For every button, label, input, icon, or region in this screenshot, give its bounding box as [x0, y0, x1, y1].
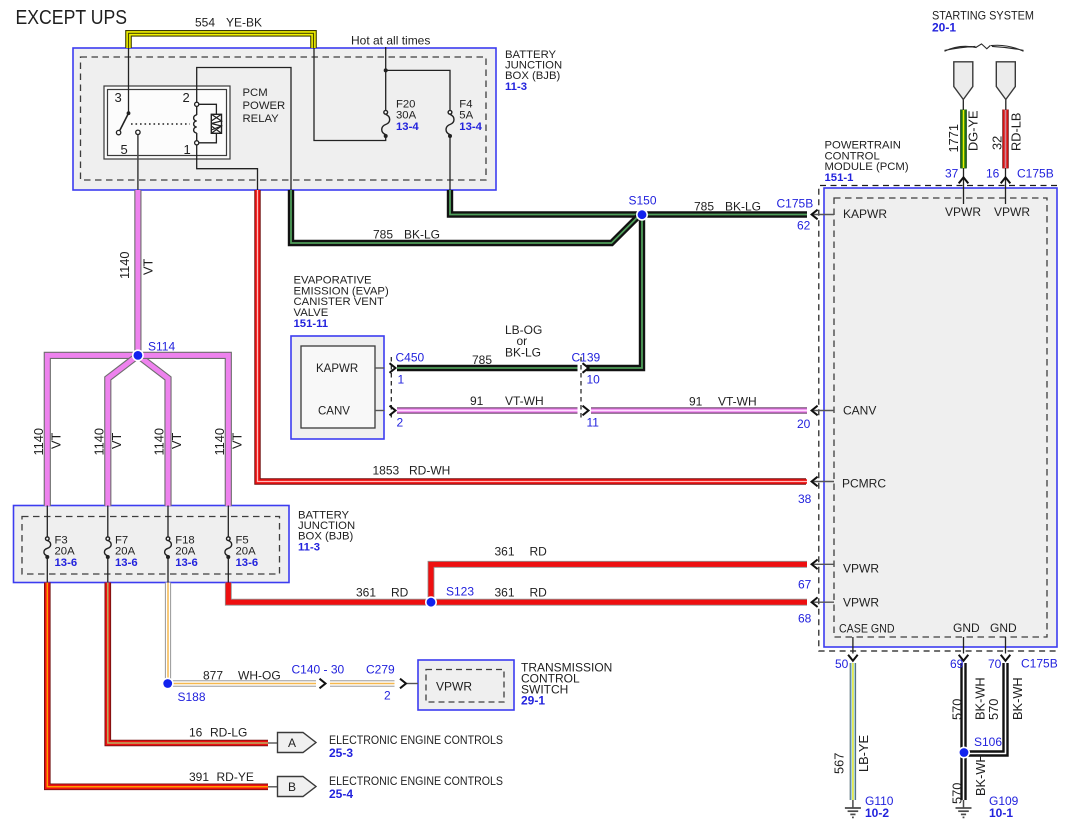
svg-text:VPWR: VPWR	[843, 562, 879, 576]
svg-text:10-1: 10-1	[989, 806, 1013, 820]
svg-text:151-1: 151-1	[825, 172, 854, 184]
svg-text:ELECTRONIC ENGINE CONTROLS: ELECTRONIC ENGINE CONTROLS	[329, 733, 503, 747]
svg-text:S106: S106	[974, 735, 1002, 749]
wire 1853 RD-WH from relay pin1 to PCMRC	[258, 190, 807, 482]
wire: F4 bottom to box edge	[449, 137, 451, 191]
relay switch pivot dot	[127, 111, 131, 115]
svg-text:62: 62	[797, 219, 811, 233]
wire 32 RD-LB starting system	[1002, 110, 1008, 169]
svg-text:CANV: CANV	[843, 404, 876, 418]
thin lead: C279 to switch box	[406, 683, 418, 685]
svg-text:13-6: 13-6	[175, 557, 198, 569]
splice S188	[162, 678, 174, 690]
wire 391 RD-YE from F3 to connector B	[47, 583, 268, 787]
svg-text:391RD-YE: 391RD-YE	[189, 770, 254, 784]
svg-text:DG-YE: DG-YE	[966, 110, 981, 151]
fuse F7	[104, 537, 111, 556]
svg-text:C139: C139	[572, 351, 601, 365]
relay coil-resistor link bottom	[199, 133, 217, 143]
svg-text:1853RD-WH: 1853RD-WH	[373, 464, 451, 478]
wire 361 RD from F5 through S123 to VPWR 68	[228, 583, 807, 603]
wire 1771 DG-YE starting system	[960, 110, 967, 169]
svg-text:S123: S123	[446, 585, 474, 599]
svg-text:VPWR: VPWR	[436, 680, 472, 694]
wire 16 RD-LG from F7 to connector A	[108, 583, 268, 744]
svg-text:C175B: C175B	[1021, 657, 1058, 671]
arrow into VPWR 68	[812, 597, 818, 607]
connector C139 dashed line	[580, 357, 582, 418]
svg-text:1140: 1140	[117, 251, 132, 279]
EVAP valve box	[291, 336, 384, 439]
svg-text:570: 570	[950, 783, 965, 804]
relay box outline	[104, 86, 230, 159]
arrow C450 pin2	[390, 406, 396, 416]
arrow C139 pin11	[583, 406, 589, 416]
thin lead: connector A	[268, 742, 279, 744]
arrow C139 pin10	[583, 363, 589, 373]
arrow out GND 69	[959, 655, 969, 661]
starting connector right	[996, 62, 1015, 100]
svg-text:Hot at all times: Hot at all times	[351, 34, 430, 48]
arrow out CASE GND 50	[848, 655, 858, 661]
svg-text:VPWR: VPWR	[945, 205, 981, 219]
fuse F5	[225, 537, 232, 556]
svg-text:1140: 1140	[212, 428, 227, 456]
svg-text:VT: VT	[49, 432, 64, 449]
relay dotted link	[131, 123, 190, 125]
relay switch contact circle	[116, 130, 120, 134]
svg-text:VT: VT	[169, 432, 184, 449]
C175B connector dashed boundary	[819, 186, 1057, 652]
thin lead: PCM pin tails	[812, 214, 834, 216]
wire 567 LB-YE case ground	[850, 663, 856, 800]
svg-text:VT: VT	[109, 432, 124, 449]
svg-text:LB-YE: LB-YE	[856, 735, 871, 772]
svg-text:BK-WH: BK-WH	[973, 753, 988, 796]
wire: junction to F4 fuse	[386, 70, 450, 111]
svg-text:91VT-WH: 91VT-WH	[689, 395, 757, 409]
thin lead: connector B	[268, 786, 279, 788]
svg-text:11-3: 11-3	[505, 81, 527, 93]
connector A pentagon	[278, 733, 317, 753]
svg-text:50: 50	[835, 657, 849, 671]
svg-text:25-3: 25-3	[329, 746, 353, 760]
relay pin 5 contact circle	[136, 130, 140, 134]
svg-text:554YE-BK: 554YE-BK	[195, 16, 262, 30]
svg-text:PCMRC: PCMRC	[842, 477, 886, 491]
svg-text:BATTERYJUNCTIONBOX (BJB): BATTERYJUNCTIONBOX (BJB)	[298, 510, 355, 543]
wire 1140 VT branch to F18	[138, 355, 168, 506]
arrow into CANV 20	[812, 406, 818, 416]
svg-text:BK-WH: BK-WH	[1010, 677, 1025, 720]
svg-text:GND: GND	[990, 621, 1017, 635]
connector C450 dashed line	[390, 357, 392, 418]
relay coil terminal pin 1	[195, 141, 199, 145]
wire 91 VT-WH from CANV to PCM	[397, 407, 578, 413]
rotated wire labels starting system	[946, 110, 1024, 152]
svg-text:20: 20	[797, 417, 811, 431]
svg-text:1: 1	[184, 142, 191, 157]
svg-text:13-6: 13-6	[55, 557, 78, 569]
arrow into PCMRC 38	[812, 477, 818, 487]
svg-text:13-6: 13-6	[115, 557, 138, 569]
rotated labels grounds	[832, 677, 1026, 804]
arrow out GND 70	[1001, 655, 1011, 661]
svg-text:F2030A: F2030A	[396, 98, 417, 121]
svg-text:91VT-WH: 91VT-WH	[470, 394, 544, 408]
wire 1140 VT branch to F3	[47, 355, 138, 506]
wire 1140 VT branch to F7	[108, 355, 138, 506]
thin lead: ground stems	[852, 800, 854, 808]
PCM box	[824, 188, 1057, 647]
thin lead: PCM top VPWR pins	[963, 168, 965, 204]
svg-text:C450: C450	[396, 351, 425, 365]
BJB2 fuse stems	[47, 506, 228, 583]
svg-text:10-2: 10-2	[865, 806, 889, 820]
wire: relay pin 2 loop to box edge	[197, 68, 291, 191]
svg-text:70: 70	[988, 657, 1002, 671]
svg-text:11-3: 11-3	[298, 541, 320, 553]
svg-text:KAPWR: KAPWR	[843, 207, 887, 221]
svg-text:16RD-LG: 16RD-LG	[189, 726, 247, 740]
arrow into VPWR 67	[812, 560, 818, 570]
wire 877 WH-OG from F18/S188 to C140	[168, 583, 316, 684]
svg-text:C140 - 30: C140 - 30	[292, 663, 345, 677]
svg-text:S150: S150	[629, 194, 657, 208]
relay resistor zigzag	[211, 114, 221, 133]
svg-text:S188: S188	[178, 690, 206, 704]
svg-text:VT: VT	[141, 258, 156, 275]
thin lead: starting connector tips	[962, 100, 964, 111]
wire: junction to F20 fuse	[385, 70, 387, 111]
svg-text:13-4: 13-4	[459, 121, 482, 133]
svg-text:1140: 1140	[31, 428, 46, 456]
wire 785 BK-LG from F4 through S150 to KAPWR	[450, 190, 807, 215]
thin lead: EVAP KAPWR pin	[375, 367, 385, 369]
svg-text:KAPWR: KAPWR	[316, 363, 358, 375]
svg-text:785BK-LG: 785BK-LG	[694, 200, 761, 214]
splice S106	[958, 747, 970, 759]
relay coil arcs	[194, 106, 197, 140]
svg-text:2: 2	[183, 90, 190, 105]
svg-text:37: 37	[945, 167, 959, 181]
svg-text:151-11: 151-11	[294, 318, 329, 330]
wire 1140 VT from relay pin 5 to S114	[134, 190, 141, 352]
wire 554 YE-BK loop	[129, 33, 314, 48]
wire 361 RD from S123 to VPWR 67	[431, 564, 807, 602]
svg-text:A: A	[288, 736, 296, 750]
svg-text:20-1: 20-1	[932, 21, 956, 35]
rotated 1140 VT at pin5 wire	[117, 251, 156, 279]
arrow C450 pin1	[390, 363, 396, 373]
svg-text:EXCEPT UPS: EXCEPT UPS	[16, 7, 128, 29]
wire 1140 VT branch to F5	[138, 355, 228, 506]
svg-text:1: 1	[398, 373, 405, 387]
wire: relay pin 1 loop to box edge	[197, 145, 258, 190]
svg-text:570: 570	[986, 699, 1001, 720]
svg-text:11: 11	[587, 416, 600, 430]
fuse F20	[382, 110, 390, 134]
svg-text:VPWR: VPWR	[843, 596, 879, 610]
svg-text:3: 3	[115, 90, 122, 105]
transmission control switch box	[418, 660, 514, 710]
arrow into VPWR 37	[959, 177, 969, 183]
svg-text:1140: 1140	[152, 428, 167, 456]
svg-text:CANV: CANV	[318, 406, 350, 418]
junction dot hot feed	[384, 68, 388, 72]
wire 570 BK-WH pin 69 to S106	[960, 663, 966, 750]
svg-text:67: 67	[798, 578, 812, 592]
splice S123	[425, 596, 437, 608]
wire: F20 bottom to yellow loop riser	[314, 48, 386, 141]
thin lead: EVAP CANV pin	[375, 410, 385, 412]
fuse F4	[446, 110, 454, 134]
SECTION: boxes	[14, 48, 1058, 710]
svg-text:32: 32	[990, 136, 1005, 150]
svg-text:68: 68	[798, 612, 812, 626]
svg-text:BATTERYJUNCTIONBOX (BJB): BATTERYJUNCTIONBOX (BJB)	[505, 49, 562, 82]
svg-text:C175B: C175B	[1017, 167, 1054, 181]
splice S150	[636, 209, 648, 221]
svg-text:877WH-OG: 877WH-OG	[203, 669, 281, 683]
svg-text:C175B: C175B	[777, 197, 814, 211]
battery junction box BJB top	[73, 48, 496, 190]
wire: relay pin 3 drop	[128, 48, 130, 112]
svg-text:1771: 1771	[946, 124, 961, 152]
ground G110	[845, 808, 861, 817]
rotated 1140 VT labels row	[31, 428, 244, 456]
svg-text:CASE GND: CASE GND	[839, 622, 895, 636]
wire 570 BK-WH S106 to G109	[960, 755, 966, 800]
relay resistor box	[211, 114, 221, 133]
svg-text:ELECTRONIC ENGINE CONTROLS: ELECTRONIC ENGINE CONTROLS	[329, 774, 503, 788]
fuse F3	[44, 537, 51, 556]
svg-text:69: 69	[950, 657, 964, 671]
svg-text:RD-LB: RD-LB	[1009, 113, 1024, 151]
fuse F18	[165, 537, 172, 556]
thin lead: PCM bottom GND pins	[852, 637, 854, 654]
wire 877 WH-OG from C140 to C279	[330, 680, 395, 686]
arrow into KAPWR 62	[812, 210, 818, 220]
svg-text:S114: S114	[148, 340, 175, 354]
svg-text:C279: C279	[366, 663, 395, 677]
svg-text:25-4: 25-4	[329, 787, 353, 801]
ground G109	[956, 808, 972, 817]
svg-text:1140: 1140	[92, 428, 107, 456]
svg-text:16: 16	[986, 167, 1000, 181]
connector B pentagon	[278, 777, 317, 797]
arrow into VPWR 16	[1001, 177, 1011, 183]
relay coil-resistor link top	[199, 104, 217, 114]
starting connector left	[954, 62, 973, 100]
relay coil terminal pin 2	[195, 102, 199, 106]
splice S114	[132, 349, 144, 361]
svg-text:B: B	[288, 780, 296, 794]
svg-text:5: 5	[121, 142, 128, 157]
svg-text:F45A: F45A	[459, 98, 473, 121]
svg-text:13-6: 13-6	[236, 557, 259, 569]
relay switch arm	[119, 113, 128, 131]
svg-text:567: 567	[832, 753, 847, 774]
arrow C279	[400, 679, 406, 689]
svg-text:F1820A: F1820A	[175, 535, 196, 558]
svg-text:2: 2	[384, 689, 391, 703]
brace starting system	[945, 44, 1024, 51]
svg-text:785BK-LG: 785BK-LG	[373, 228, 440, 242]
wire 785 BK-LG from relay pin2 to S150	[291, 190, 640, 243]
arrow C140-30	[320, 679, 326, 689]
svg-text:570: 570	[950, 699, 965, 720]
svg-text:2: 2	[397, 416, 404, 430]
svg-text:10: 10	[587, 373, 601, 387]
wire 570 BK-WH pin 70 to S106	[966, 663, 1006, 754]
svg-text:VPWR: VPWR	[994, 205, 1030, 219]
svg-text:38: 38	[798, 492, 812, 506]
wire: hot at all times feed	[385, 47, 387, 70]
svg-text:GND: GND	[953, 621, 980, 635]
svg-text:VT: VT	[229, 432, 244, 449]
svg-text:785: 785	[472, 353, 492, 367]
wire 785 LB-OG/BK-LG from C450 to S150	[397, 365, 578, 371]
battery junction box BJB lower	[14, 506, 290, 583]
svg-text:13-4: 13-4	[396, 121, 419, 133]
svg-text:29-1: 29-1	[521, 694, 545, 708]
wire: relay pin 5 stem	[137, 135, 139, 190]
